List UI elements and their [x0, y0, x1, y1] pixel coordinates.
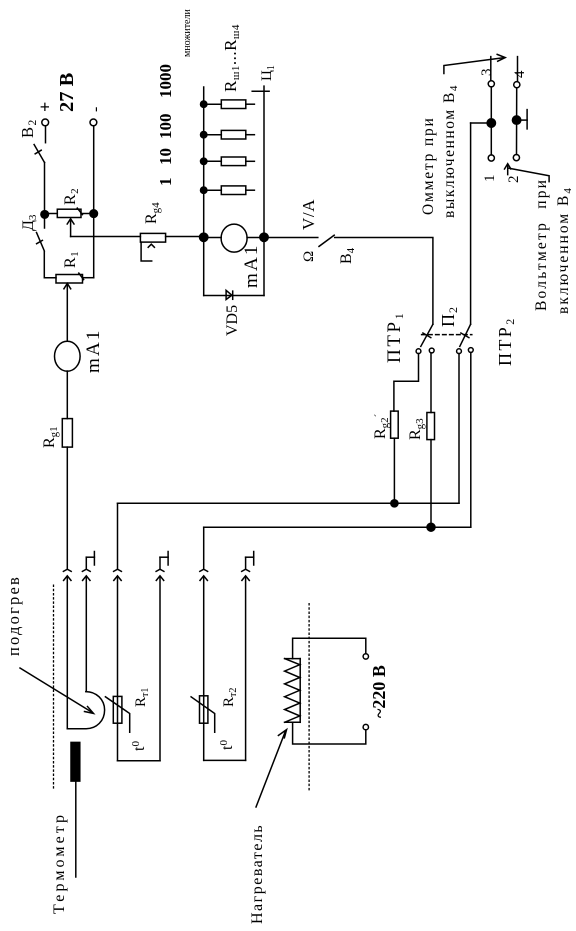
switch P2 linkage dashed: [422, 334, 472, 336]
wire: c1 to Rg2: [394, 354, 419, 412]
svg-text:100: 100: [156, 114, 175, 140]
pushbutton actuator T stub: [517, 119, 528, 121]
wire: switch D3 to R1 top stub: [44, 252, 56, 278]
meter mA1 (series): [55, 341, 81, 371]
node junction Rg3-bus2: [427, 523, 435, 531]
resistor Rsh1 with stubs: [204, 186, 255, 195]
wire: Rg3 to bus2: [430, 440, 432, 528]
switch B4 blade: [319, 235, 334, 246]
thermistor Rt2: [200, 696, 208, 723]
wire: minus rail from R1 bottom through node2 to minus terminal: [93, 126, 95, 278]
svg-text:Ω: Ω: [301, 251, 317, 262]
pointer arrow to contact 2: [509, 168, 549, 181]
thermometer bulb: [71, 742, 80, 781]
svg-text:~220 В: ~220 В: [369, 665, 389, 718]
node junction B: [260, 233, 268, 241]
svg-text:VD5: VD5: [224, 305, 241, 336]
rail2 socket stub with T bar: [86, 552, 94, 570]
heater element zigzag: [285, 659, 301, 723]
switch B2 tick: [35, 150, 41, 154]
wire: Rg2 to bus1: [393, 438, 395, 503]
dotted boundary line top: [53, 585, 55, 788]
wire: node B down to switch B4: [264, 237, 318, 239]
pushbutton line 1-3 contact circle 1: [488, 155, 494, 161]
wire: c4 to bus2: [470, 354, 472, 528]
heater terminal circle left: [363, 724, 368, 729]
svg-text:V/A: V/A: [299, 199, 318, 230]
thermistor Rt1: [113, 696, 122, 723]
wire: Rg1 left to connector socket: [66, 447, 68, 569]
wire: stub right of circle 3: [490, 57, 492, 81]
switch P2 pole1 tick: [423, 333, 431, 338]
svg-text:10: 10: [156, 148, 175, 165]
wire: c3 to bus1: [458, 354, 460, 504]
resistor Rg4 adjust bracket: [141, 242, 152, 261]
connector pair rail4: [156, 569, 164, 580]
wire: rail3 from Rt1 loop to connector: [117, 578, 119, 761]
wire: R1 bottom stub: [83, 277, 94, 279]
wire: node1 to switch D3 contact: [44, 214, 46, 228]
dotted boundary line bottom: [308, 603, 310, 790]
wire: rail5 from Rt2 loop to connector: [203, 578, 205, 761]
wire: bus2 vertical: [204, 526, 471, 528]
resistor R2 wiper arrow: [70, 221, 72, 237]
thermistor Rt1 slash: [105, 697, 129, 732]
switch P2 pole2 wire long rail to pushbutton: [470, 123, 472, 324]
switch D3 blade: [37, 233, 45, 251]
resistor R1: [56, 275, 83, 284]
svg-text:mA1: mA1: [83, 328, 104, 373]
wire: switch B4 down and left to P2 pole1: [335, 238, 433, 325]
heater wire left to terminal: [293, 722, 366, 744]
diode VD5 branch vertical: [204, 295, 264, 297]
svg-text:4: 4: [512, 70, 528, 78]
wire: pushbutton stub from pole2 rail down to bridge1: [471, 122, 492, 124]
connector pair rail3: [114, 569, 122, 580]
svg-text:mA1: mA1: [241, 243, 262, 288]
node junction tap1: [201, 187, 207, 193]
rail6 socket stub with T bar: [246, 552, 254, 570]
node junction tap2: [201, 158, 207, 164]
rail4 socket stub with T bar: [160, 552, 168, 570]
node junction bridge2: [512, 116, 520, 124]
main rail: mA1-1 to R1 wiper handled above; wire mA1-1 right side: [66, 371, 68, 419]
wire: switch B2 contact to plus terminal: [45, 126, 47, 143]
node junction bridge1: [487, 119, 495, 127]
pushbutton line 2-4 contact circle 4: [514, 82, 520, 88]
wire: Rg4 to node A: [166, 236, 204, 238]
svg-text:+: +: [35, 102, 55, 112]
pushbutton actuator T bar: [526, 110, 528, 129]
heater terminal circle right: [363, 654, 368, 659]
resistor R1 wiper arrow: [66, 285, 68, 341]
svg-text:подогрев: подогрев: [4, 575, 23, 656]
svg-text:множители: множители: [182, 9, 193, 57]
pushbutton line 1-3 contact circle 3: [488, 81, 494, 87]
resistor R2 bottom stub: [81, 213, 94, 215]
svg-text:включенном В4: включенном В4: [555, 186, 574, 314]
svg-text:-: -: [87, 107, 104, 112]
resistor R2: [57, 209, 81, 217]
Rt2 loop left closing bar: [204, 759, 246, 761]
switch B2 blade: [34, 145, 44, 163]
switch P2 pole1 contact c2: [429, 348, 434, 353]
svg-text:2: 2: [506, 176, 522, 184]
connector pair rail5: [200, 569, 208, 580]
svg-text:выключенном В4: выключенном В4: [441, 84, 460, 218]
switch P2 pole2 tick: [461, 333, 469, 338]
terminal circle plus: [42, 119, 49, 126]
node junction tap4: [201, 101, 207, 107]
diode VD5: [226, 290, 232, 299]
resistor Rg1: [62, 419, 72, 448]
switch P2 pole2 blade: [460, 324, 471, 346]
heater wire right to terminal: [293, 638, 366, 658]
diode VD5 branch left link: [203, 238, 205, 296]
resistor R2 top stub: [45, 213, 58, 215]
resistor Rsh3 with stubs: [204, 130, 255, 139]
wire: supply plus rail from node1 to switch B2: [44, 163, 46, 215]
diode VD5 branch right link: [263, 238, 265, 296]
node junction Rg2-bus1: [391, 500, 398, 507]
switch P2 pole2 contact c3: [457, 349, 462, 354]
switch P2 pole1 contact c1: [416, 349, 421, 354]
svg-text:Омметр при: Омметр при: [420, 116, 437, 215]
pushbutton line 2-4 wire: [516, 88, 518, 155]
terminal Ts1 crossbar: [252, 90, 269, 92]
thermometer stem wire: [75, 781, 77, 877]
resistor R1 adjust tick: [79, 273, 84, 280]
connector pair rail1: [63, 569, 71, 729]
svg-text:Нагреватель: Нагреватель: [249, 824, 266, 924]
switch P2 pole1 blade: [421, 324, 433, 346]
meter mA1 (shunt block): [221, 224, 247, 252]
connector pair rail2: [82, 569, 90, 580]
connector pair rail6: [242, 569, 250, 580]
switch P2 pole2 contact c4: [468, 348, 473, 353]
svg-text:1: 1: [156, 178, 175, 187]
node junction node2: [90, 210, 98, 218]
wire: bus1 vertical: [118, 502, 460, 504]
pushbutton line 1-3 wire: [490, 87, 492, 155]
resistor Rsh2 with stubs: [204, 157, 255, 166]
resistor Rg3: [427, 413, 435, 440]
pointer arrow to contact 3: [444, 58, 505, 74]
wire: rail6 from Rt2 loop to connector: [245, 578, 247, 761]
pointer line Nagrevatel: [256, 731, 286, 807]
svg-text:27 В: 27 В: [56, 72, 78, 112]
heater loop arc: [67, 692, 104, 729]
resistor Rg4: [140, 233, 165, 242]
wire: node A to meter mA1-2: [204, 237, 222, 239]
wire: multiplier rail: [203, 87, 205, 238]
wire: c2 to Rg3: [430, 354, 432, 413]
terminal circle minus: [90, 119, 97, 126]
wire: rail4 from Rt1 loop to connector: [159, 578, 161, 761]
pointer line podogrev: [20, 668, 92, 712]
svg-text:Термометр: Термометр: [51, 812, 68, 914]
node junction A: [200, 233, 208, 241]
svg-text:1: 1: [482, 175, 498, 183]
Rt1 loop left closing bar: [118, 760, 161, 762]
pushbutton line 2-4 contact circle 2: [513, 154, 519, 160]
thermistor Rt2 slash: [191, 697, 215, 732]
svg-text:3: 3: [479, 69, 495, 77]
wire: rail3 right to bus1 corner: [117, 503, 119, 569]
wire: meter to node B: [247, 237, 264, 239]
switch D3 tick: [37, 240, 43, 243]
resistor R2 adjust tick: [77, 208, 82, 215]
wire: rail2 from loop to connector: [85, 578, 87, 692]
resistor Rsh4 with stubs: [204, 100, 255, 109]
resistor Rg2: [391, 411, 399, 438]
svg-text:1000: 1000: [156, 64, 175, 98]
wire: rail5 right to bus2 corner: [203, 527, 205, 569]
svg-text:Вольтметр при: Вольтметр при: [533, 178, 550, 311]
resistor Rg4 adjust caret: [148, 244, 154, 247]
wire: Ts1 rail from node B: [263, 86, 265, 237]
wire: R2 wiper down to Rg4: [71, 236, 141, 238]
node junction node1: [41, 211, 49, 219]
node junction tap3: [201, 132, 207, 138]
wire: stub right of circle 4: [517, 57, 519, 82]
